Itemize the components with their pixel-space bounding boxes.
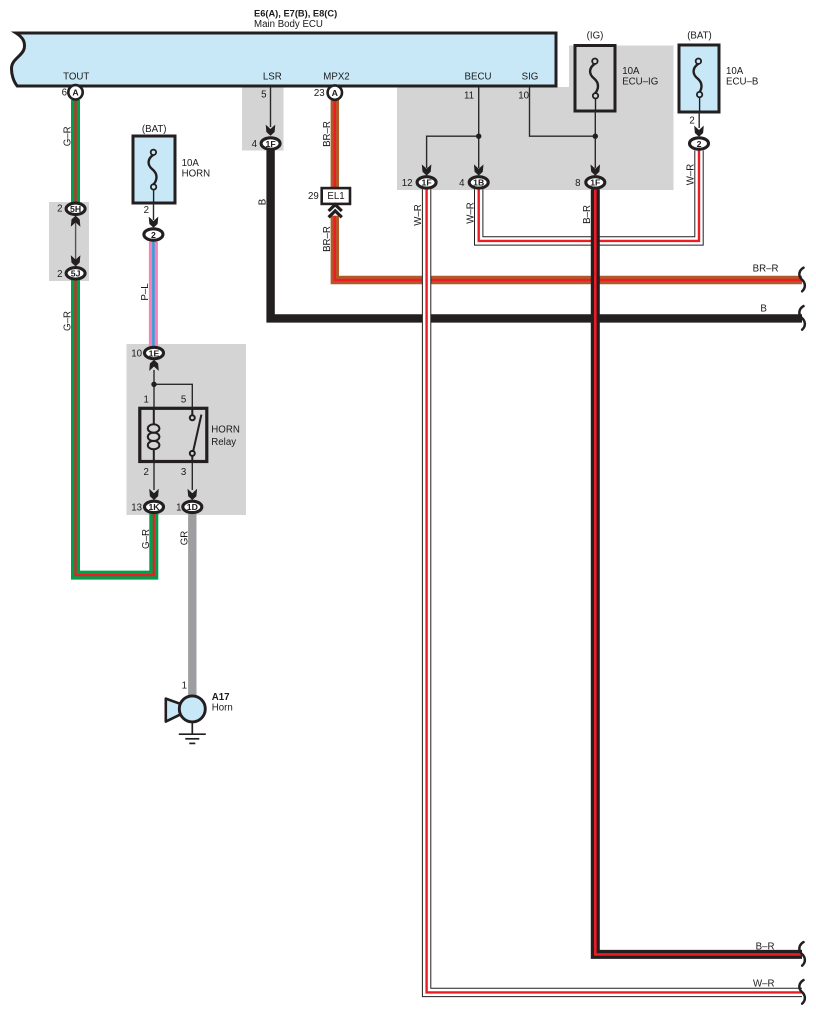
arrow into 1F (LSR) [266, 125, 276, 136]
wire B from LSR 1F down and right [271, 150, 802, 318]
svg-text:10A: 10A [726, 66, 744, 77]
junction block shading (BECU/SIG/IG fuse area) [397, 46, 674, 191]
connector oval 1B(4) [469, 177, 488, 188]
relay coil [148, 408, 160, 462]
svg-text:2: 2 [57, 269, 62, 280]
svg-text:B: B [760, 304, 766, 315]
svg-text:BR–R: BR–R [753, 264, 779, 275]
relay switch [190, 408, 202, 462]
svg-text:W–R: W–R [465, 202, 476, 224]
connector oval 1F(12) [417, 177, 436, 188]
svg-text:2: 2 [697, 139, 702, 149]
svg-text:2: 2 [57, 204, 62, 215]
svg-text:10A: 10A [182, 158, 200, 169]
relay box HORN Relay [140, 408, 207, 461]
svg-text:TOUT: TOUT [63, 71, 89, 82]
svg-text:BR–R: BR–R [322, 121, 333, 147]
break squiggle W-R [799, 980, 805, 1004]
thin wire IG fuse down to 1F(8) [594, 111, 596, 168]
thin wire relay pin3 to 1D [191, 462, 193, 491]
fuse element HORN [149, 150, 157, 203]
fuse element ECU-IG [590, 59, 598, 112]
svg-text:5J: 5J [71, 269, 81, 279]
svg-text:SIG: SIG [522, 71, 539, 82]
svg-text:(BAT): (BAT) [687, 31, 712, 42]
thin wire branch to relay pin5 [154, 384, 192, 408]
svg-text:BR–R: BR–R [322, 226, 333, 252]
thin wire 5H to 5J pass-through [75, 218, 77, 264]
horn A17 symbol [166, 699, 183, 722]
svg-text:10: 10 [131, 349, 142, 360]
svg-text:11: 11 [464, 91, 474, 102]
arrow into 2 (ECU-B fuse) [694, 126, 704, 137]
arrow into 5J [71, 255, 81, 266]
svg-text:Main Body ECU: Main Body ECU [254, 19, 323, 30]
svg-text:1E: 1E [149, 348, 160, 358]
svg-text:G–R: G–R [62, 311, 73, 331]
wire BR-R from MPX2 to EL1 [331, 100, 339, 190]
svg-text:3: 3 [181, 467, 186, 478]
svg-text:1K: 1K [148, 502, 160, 512]
pin circle A (MPX2) [328, 85, 342, 99]
arrow into 1B(4) [474, 164, 484, 175]
svg-text:B–R: B–R [756, 942, 775, 953]
shield chevrons below EL1 [329, 205, 342, 218]
break squiggle BR-R [799, 268, 805, 292]
svg-text:A17: A17 [212, 692, 230, 703]
svg-text:23: 23 [314, 88, 325, 99]
svg-text:2: 2 [689, 116, 694, 127]
arrow up into 5H [71, 216, 81, 227]
wire P-L from connector 2 to 1E [149, 242, 158, 347]
connector oval 1F(8) [586, 177, 605, 188]
connector oval 2 (horn fuse) [144, 229, 163, 240]
svg-text:A: A [332, 88, 339, 98]
svg-text:29: 29 [308, 191, 319, 202]
connector oval 5H [66, 203, 85, 214]
connector oval 5J [66, 268, 85, 279]
arrow up into 1E [149, 360, 159, 371]
arrow into 2 (HORN fuse) [149, 217, 159, 228]
svg-text:1: 1 [144, 395, 149, 406]
svg-text:1D: 1D [187, 502, 198, 512]
svg-text:EL1: EL1 [327, 191, 344, 202]
arrow into 1F(12) [422, 164, 432, 175]
break squiggle B [799, 306, 805, 330]
svg-text:B–R: B–R [582, 205, 593, 224]
connector oval 1D [183, 501, 202, 512]
thin wire relay pin1 [153, 384, 155, 408]
svg-text:1F: 1F [590, 178, 600, 188]
svg-text:BECU: BECU [465, 71, 492, 82]
thin wire BECU pin 11 down to junction [478, 87, 480, 168]
wire GR from 1D to horn [188, 513, 196, 697]
svg-text:B: B [257, 199, 268, 205]
svg-text:LSR: LSR [263, 71, 282, 82]
svg-text:4: 4 [459, 178, 465, 189]
svg-text:1F: 1F [266, 139, 276, 149]
thin wire ECU-B fuse stub [698, 112, 700, 128]
svg-text:2: 2 [144, 205, 149, 216]
thin wire relay pin2 to 1K [153, 462, 155, 491]
junction block shading (LSR connector area) [242, 87, 284, 151]
wire BR-R below EL1 down and right [335, 216, 802, 280]
svg-text:1: 1 [176, 503, 181, 514]
thin wire SIG pin 10 to IG fuse line [530, 87, 596, 136]
thin wire branch to 1F(12) [427, 136, 479, 168]
svg-text:13: 13 [131, 503, 142, 514]
connector oval 1F (LSR) [261, 138, 280, 149]
wire G-R from TOUT to 5H [71, 100, 80, 203]
node junction relay coil [151, 382, 156, 387]
thin wire 1E to relay junction [153, 370, 155, 384]
svg-text:(BAT): (BAT) [142, 124, 167, 135]
fuse box 10A ECU-B [679, 45, 719, 112]
svg-text:G–R: G–R [62, 126, 73, 146]
ground [179, 722, 206, 744]
svg-text:W–R: W–R [686, 164, 697, 186]
svg-text:6: 6 [62, 88, 67, 99]
svg-text:2: 2 [151, 230, 156, 240]
svg-text:Relay: Relay [211, 437, 236, 448]
connector oval 2 (ECU-B) [690, 138, 709, 149]
break squiggle B-R [799, 942, 805, 966]
svg-text:HORN: HORN [182, 169, 211, 180]
svg-text:1B: 1B [473, 178, 484, 188]
svg-text:5H: 5H [70, 204, 81, 214]
arrow into 1F(8) [591, 164, 601, 175]
svg-text:12: 12 [402, 178, 413, 189]
svg-text:W–R: W–R [753, 978, 775, 989]
svg-text:E6(A), E7(B), E8(C): E6(A), E7(B), E8(C) [254, 9, 337, 19]
svg-text:Horn: Horn [212, 703, 233, 714]
connector oval 1E [145, 347, 164, 358]
arrow into 1D [188, 489, 198, 500]
svg-text:P–L: P–L [140, 283, 151, 301]
svg-text:MPX2: MPX2 [323, 71, 349, 82]
svg-text:5: 5 [181, 395, 186, 406]
pin circle A (TOUT) [68, 85, 82, 99]
node junction SIG/IG [593, 134, 598, 139]
thin wire LSR pin 5 stub [270, 87, 272, 127]
arrow into 1K [149, 489, 159, 500]
wire W-R from 1F(12) down to bottom right [427, 189, 802, 992]
thin wire HORN fuse stub [153, 203, 155, 220]
svg-text:ECU–IG: ECU–IG [622, 77, 658, 88]
svg-text:HORN: HORN [211, 425, 240, 436]
svg-text:2: 2 [144, 467, 149, 478]
connector oval 1K [145, 501, 164, 512]
svg-text:5: 5 [261, 90, 266, 101]
svg-text:4: 4 [252, 139, 258, 150]
svg-text:ECU–B: ECU–B [726, 77, 758, 88]
ECU box E6/E7/E8 Main Body ECU [12, 33, 556, 86]
wire B-R from 1F(8) down to bottom right [595, 189, 802, 954]
svg-text:GR: GR [179, 531, 190, 546]
node junction BECU [476, 134, 481, 139]
junction block shading (5H/5J connector area) [49, 202, 89, 281]
svg-text:1: 1 [182, 681, 187, 692]
svg-text:A: A [72, 88, 79, 98]
fuse box 10A HORN [133, 136, 175, 203]
svg-text:G–R: G–R [141, 529, 152, 549]
svg-text:W–R: W–R [413, 204, 424, 226]
wire W-R from 1B to ECU-B fuse pin 2 [479, 151, 699, 241]
svg-text:1F: 1F [422, 178, 432, 188]
wire G-R from 5J down, right, up to 1K [76, 280, 154, 575]
svg-text:8: 8 [575, 178, 580, 189]
svg-text:(IG): (IG) [587, 31, 604, 42]
svg-text:10: 10 [518, 91, 529, 102]
connector EL1 [322, 188, 350, 204]
fuse element ECU-B [694, 59, 703, 113]
fuse box 10A ECU-IG [575, 46, 615, 112]
junction block shading (horn relay area) [127, 344, 247, 515]
svg-text:10A: 10A [622, 66, 640, 77]
